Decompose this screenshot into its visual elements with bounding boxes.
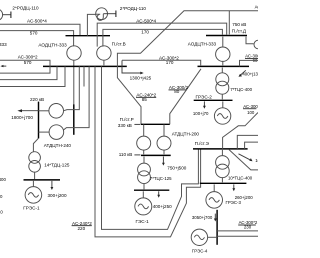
svg-text:7*ТЦС-125: 7*ТЦС-125 [150, 176, 172, 181]
svg-text:ГЭС-1: ГЭС-1 [136, 219, 150, 224]
load arrow 260+j200 [232, 184, 235, 191]
svg-text:АС-300*2: АС-300*2 [18, 55, 38, 60]
reactor R3 stub at right edge of bus P.st.D [246, 37, 263, 49]
wire riser to reactor R2 from bus P.st.V [87, 14, 95, 35]
svg-text:АС-300: АС-300 [243, 104, 258, 109]
wire from P.st.E bus to right edge upper [237, 135, 258, 149]
load arrow 750+j500 [162, 157, 165, 166]
load arrow 400+j250 [157, 191, 160, 197]
load arrow 400+j132 [239, 70, 246, 77]
svg-text:300+j200: 300+j200 [48, 193, 67, 198]
wire AC-300*2/170 (main bus area to GRES-2 bus) [122, 60, 201, 65]
wire U1 bottom lead down to 220kV bus R [73, 60, 75, 104]
label AC-300/2 / 80 [169, 85, 189, 94]
bus P.st.E [193, 148, 248, 150]
wire AC-500*4 circuit 2 (right) to bus P.st.D [103, 29, 222, 46]
transformer T4 ATDTsTN-200 winding R [157, 136, 171, 150]
main 330kV bus (P.st.V lower) [43, 65, 127, 67]
svg-text:750 кВ: 750 кВ [232, 22, 246, 27]
svg-text:АС-500*4: АС-500*4 [27, 19, 47, 24]
bus P.st.D [206, 35, 247, 37]
svg-text:ГРЭС-2: ГРЭС-2 [196, 94, 213, 99]
wires T4 leads [143, 124, 145, 136]
svg-text:220 кВ: 220 кВ [30, 97, 44, 102]
svg-text:3050+j700: 3050+j700 [192, 215, 213, 220]
svg-text:260+j200: 260+j200 [235, 195, 254, 200]
transformer T4 ATDTsTN-200 winding L [137, 136, 151, 150]
wires T5 leads [143, 157, 145, 164]
transformer T3 14*TDTs-125 (two windings) [29, 152, 41, 164]
svg-text:АОДЦТН-333: АОДЦТН-333 [38, 42, 67, 47]
svg-text:100+j70: 100+j70 [193, 111, 209, 116]
wire AC-300/90 from GRES-2 bus to right edge [240, 60, 259, 66]
generator bus GRES-1 [24, 179, 61, 181]
vertical bus GRES-4 [216, 210, 218, 245]
svg-text:750+j500: 750+j500 [167, 166, 186, 171]
wire AC-300*2/230 circuit 1 to right edge [217, 230, 258, 232]
transformer U2 AODTsTN-333 (winding circle) [97, 46, 111, 60]
svg-text:100: 100 [247, 110, 255, 115]
svg-text:333: 333 [0, 42, 7, 47]
wire AC-500*4 circuit 1 (right) to bus P.st.D [97, 23, 227, 46]
wire AC-500 circuit 2 (left), into transformer U1 [0, 31, 74, 47]
load arrow down-right from P.st.E bus [239, 154, 253, 161]
svg-text:400: 400 [0, 177, 6, 182]
generator bus GES-1 [134, 189, 169, 191]
svg-text:2*РОДЦ-110: 2*РОДЦ-110 [12, 5, 39, 10]
svg-text:570: 570 [30, 30, 38, 35]
svg-text:110 кВ: 110 кВ [119, 152, 133, 157]
wire U-loop line AC-300*2/570 to off-image left [0, 60, 50, 73]
label AC-300*2 / 230 [238, 220, 258, 229]
svg-text:400+j132: 400+j132 [242, 71, 258, 76]
svg-text:АОДЦТН-333: АОДЦТН-333 [188, 42, 217, 47]
wire from main bus to left off-image line 2 [0, 66, 65, 86]
label AC-300 / 100 [243, 104, 258, 115]
svg-text:10*ТЦС-400: 10*ТЦС-400 [228, 176, 253, 181]
transformer U1 AODTsTN-333 (winding circle) [67, 46, 81, 60]
svg-text:АС-500*4: АС-500*4 [136, 19, 156, 24]
generator G3 GRES-2 [214, 101, 230, 124]
generator bus GRES-2 [194, 99, 233, 101]
svg-text:230: 230 [244, 224, 252, 229]
bus 110kV (P.st.R lower) [141, 154, 171, 156]
generator G4 GRES-3 [206, 184, 223, 208]
label AC-300 / 90 [245, 54, 260, 63]
220kV bus R (vertical) [73, 104, 75, 134]
generator G1 GRES-1 [25, 181, 42, 203]
svg-text:ГРЭС-3: ГРЭС-3 [226, 200, 242, 205]
svg-text:ГРЭС-1: ГРЭС-1 [23, 206, 40, 211]
svg-text:330 кВ: 330 кВ [118, 123, 132, 128]
svg-text:ГРЭС-4: ГРЭС-4 [192, 249, 208, 254]
wire TB right lead up to main bus [63, 66, 89, 130]
label AC-240*2 / 85 (750kV line) [136, 93, 157, 102]
wire TA left lead [39, 110, 49, 112]
svg-text:10: 10 [255, 158, 258, 163]
svg-text:1300+j425: 1300+j425 [130, 75, 152, 80]
wire from main bus to left off-image line 1 [0, 66, 57, 79]
wire AC-300/100 diagonal to right edge [223, 113, 258, 149]
svg-text:АС: АС [255, 5, 258, 10]
wire TB left lead [39, 131, 50, 133]
wire jog from 220kV bus L to transformer T3 [33, 138, 38, 152]
flux arrow 1300+j425 [122, 60, 144, 74]
220kV bus L (vertical) [38, 102, 40, 139]
transformer TA (autotransformer winding A) [49, 104, 64, 119]
transformer T6 7*TTsS-400 (two windings) [216, 73, 229, 86]
wire U2 bottom lead to main bus [103, 60, 105, 65]
wire stub from main bus to left line 2 junction [83, 66, 85, 86]
wire 220kV tie line circuit 2 (main bus to P.st.E) [95, 66, 201, 237]
reactor R1 (shunt reactor 2xRODTs-110, left edge) [0, 9, 11, 21]
svg-text:2*РОДЦ-110: 2*РОДЦ-110 [120, 6, 147, 11]
svg-text:170: 170 [166, 60, 174, 65]
wire AC-300/2 80 diagonal (P.st.R to GRES-2 bus) [170, 69, 201, 124]
arrow stub at left edge [0, 65, 6, 67]
transformer T7 10*TTsS-400 (two windings) [216, 156, 230, 170]
svg-text:220: 220 [78, 226, 86, 231]
wire 220kV tie line circuit 1 (main bus to P.st.E) [102, 66, 199, 229]
transformer T5 7*TTsS-125 (two windings) [138, 163, 151, 176]
svg-text:П./ст.Р: П./ст.Р [120, 117, 134, 122]
wire TA right lead up to main bus [64, 66, 80, 110]
wire diagonal from P.st.E bus to right edge lower [229, 150, 258, 170]
label 110 kV with pointer [119, 152, 141, 157]
wire U3 bottom lead [222, 61, 224, 65]
bus P.st.V 500kV [66, 35, 111, 37]
svg-text:7*ТЦС-400: 7*ТЦС-400 [230, 87, 252, 92]
load arrow on 220kV bus with label 1800+j700 [17, 109, 38, 112]
load arrow 3050+j700 [214, 214, 217, 222]
label AC-240*2 / 220 (tie line) [72, 221, 93, 231]
wires T6 leads [221, 68, 223, 73]
reactor R2 (shunt reactor, top center) [96, 8, 116, 21]
load arrow 100+j70 [203, 101, 206, 108]
wire U3 top lead [222, 37, 224, 47]
svg-text:570: 570 [24, 60, 32, 65]
bus P.st.R 330kV [141, 123, 170, 125]
wire T3 bottom lead [34, 172, 36, 179]
transformer U3 AODTsTN-333 (P.st.D) [216, 47, 230, 61]
svg-text:1800+j700: 1800+j700 [11, 115, 33, 120]
generator bus GRES-3 [200, 182, 247, 184]
wire 750kV line to P.st.D (diagonal from P.st.R) [117, 11, 258, 124]
wire AC-300*2/230 circuit 2 to right edge [217, 235, 258, 237]
transformer TB (autotransformer winding B) [49, 125, 64, 140]
load arrow 300+j200 [51, 181, 54, 190]
wire AC-500 circuit 1 (left), from off-image to bus P.st.V [0, 24, 80, 35]
svg-text:400+j250: 400+j250 [153, 204, 172, 209]
svg-text:П./ст.Д: П./ст.Д [232, 28, 247, 33]
svg-text:П./ст.Э: П./ст.Э [195, 141, 210, 146]
generator G2 GES-1 [135, 191, 152, 215]
svg-text:80: 80 [174, 89, 180, 94]
wires T7 leads [221, 150, 223, 156]
svg-text:170: 170 [141, 29, 149, 34]
svg-text:85: 85 [142, 97, 148, 102]
svg-text:АТДЦТН-200: АТДЦТН-200 [172, 132, 200, 137]
svg-text:П./ст.В: П./ст.В [112, 41, 126, 46]
svg-text:АТДЦТН-240: АТДЦТН-240 [44, 143, 72, 148]
svg-text:14*ТДЦ-125: 14*ТДЦ-125 [44, 163, 70, 168]
generator G5 GRES-4 [191, 229, 216, 245]
bus GRES-2 330kV [198, 65, 250, 67]
wire riser from 750kV line down to bus P.st.D [228, 11, 230, 35]
label 330 kV with pointer [118, 123, 141, 128]
wire from P.st.E bus to right edge lower [245, 142, 258, 149]
